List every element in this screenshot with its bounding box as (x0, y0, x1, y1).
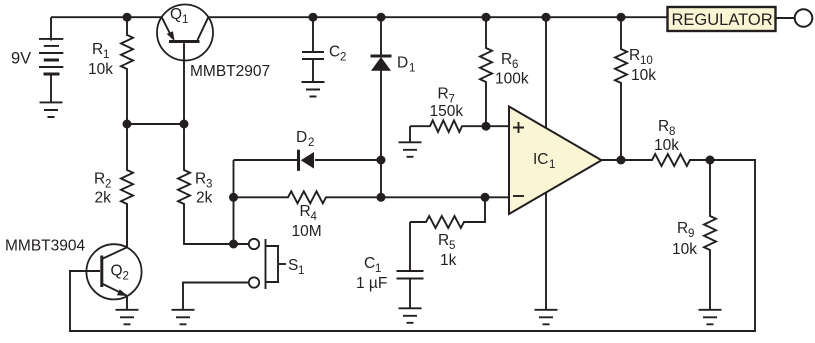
node: R1-R2 junction (123, 120, 132, 129)
svg-text:R: R (94, 171, 105, 188)
svg-text:150k: 150k (430, 103, 464, 120)
ground (IC1) (535, 310, 558, 325)
wire: Q2 emitter to ground (126, 296, 128, 311)
resistor R7 150k (410, 86, 509, 133)
resistor R5 1k (410, 197, 485, 269)
node: D1 anode / R4 line junction (377, 193, 386, 202)
svg-text:2: 2 (340, 52, 346, 64)
transistor Q1 MMBT2907 (PNP) (157, 5, 270, 81)
wire: base node row (R1/R2 junction to Q1 base/R3) (127, 123, 184, 125)
resistor R2 2k (94, 124, 133, 246)
wire: feedback loop Q2 base, left edge, bottom, right edge (70, 160, 755, 331)
wire: regulator to output terminal (776, 17, 795, 19)
svg-text:R: R (629, 47, 640, 64)
diode D1 (371, 17, 416, 197)
transistor Q2 MMBT3904 (NPN) (5, 238, 142, 300)
node: R4 left junction (229, 193, 238, 202)
svg-text:5: 5 (449, 240, 455, 252)
capacitor C2 (302, 17, 346, 81)
node: S1 top junction (229, 240, 238, 249)
op-amp IC1 (509, 107, 602, 215)
svg-text:Q: Q (170, 6, 182, 23)
resistor R10 10k (615, 17, 656, 160)
svg-text:9V: 9V (11, 50, 31, 68)
svg-text:1 µF: 1 µF (356, 275, 387, 292)
resistor R1 10k (88, 17, 133, 124)
svg-text:R: R (438, 86, 449, 103)
svg-text:2k: 2k (196, 190, 213, 207)
svg-text:10k: 10k (654, 137, 679, 154)
svg-text:C: C (364, 255, 375, 272)
wire: top rail right (Q1 collector to regulator) (209, 16, 668, 18)
svg-text:REGULATOR: REGULATOR (672, 11, 773, 29)
wire: IC1 output (602, 159, 622, 161)
diode D2 (234, 129, 382, 171)
wire: node line (D2/R4/S1 vertical) (233, 160, 235, 244)
svg-text:1: 1 (298, 265, 304, 277)
svg-text:100k: 100k (495, 71, 529, 88)
node: R6/R7/non-inverting input junction (482, 122, 491, 131)
node: R8/R9/feedback junction (706, 156, 715, 165)
ground (C1) (399, 308, 422, 323)
svg-text:2k: 2k (95, 190, 112, 207)
node: rail junction C2 (309, 13, 318, 22)
wire: V- of IC1 to ground (545, 192, 547, 309)
wire: R2 to Q2 collector (126, 204, 128, 248)
node: rail junction V+ (542, 13, 551, 22)
svg-text:6: 6 (512, 59, 518, 71)
battery B1 9V (11, 17, 63, 102)
ground (battery) (40, 102, 63, 117)
resistor R4 10M (234, 191, 510, 240)
svg-text:10k: 10k (88, 61, 113, 78)
svg-text:1: 1 (182, 14, 188, 26)
ground (C2) (302, 82, 325, 97)
svg-text:Q: Q (111, 263, 123, 280)
svg-text:R: R (658, 118, 669, 135)
svg-text:10M: 10M (292, 223, 322, 240)
svg-text:C: C (329, 44, 340, 61)
svg-text:S: S (288, 257, 298, 274)
output terminal (795, 9, 813, 27)
switch S1 (pushbutton) (249, 239, 305, 289)
svg-text:2: 2 (123, 271, 129, 283)
ground (S1) (172, 310, 195, 325)
svg-text:MMBT2907: MMBT2907 (190, 63, 270, 80)
svg-text:IC: IC (533, 151, 549, 168)
ground (R9) (699, 310, 722, 325)
svg-text:R: R (300, 203, 311, 220)
svg-text:D: D (397, 55, 408, 72)
svg-text:1: 1 (375, 263, 381, 275)
node: output / R10 / R8 junction (617, 156, 626, 165)
svg-text:10k: 10k (672, 241, 697, 258)
node: rail junction R10 (617, 13, 626, 22)
wire: V+ supply to IC1 (545, 17, 547, 128)
node: rail junction R1 (123, 13, 132, 22)
node: rail junction R6 (482, 13, 491, 22)
capacitor C1 1uF (356, 222, 424, 308)
ground (Q2 emitter) (116, 310, 139, 325)
resistor R8 10k (621, 118, 710, 166)
svg-text:1: 1 (409, 63, 415, 75)
svg-text:2: 2 (308, 137, 314, 149)
svg-text:9: 9 (688, 228, 694, 240)
svg-text:1k: 1k (440, 252, 457, 269)
regulator block (668, 7, 776, 31)
resistor R9 10k (672, 160, 716, 310)
svg-text:R: R (501, 51, 512, 68)
svg-text:1: 1 (103, 49, 109, 61)
resistor R3 2k (178, 124, 249, 244)
wire: S1 bottom contact to ground (183, 283, 249, 310)
svg-text:10k: 10k (631, 67, 656, 84)
node: R5 / inverting input junction (481, 193, 490, 202)
svg-text:4: 4 (311, 211, 318, 223)
svg-text:10: 10 (640, 55, 653, 67)
resistor R6 100k (480, 17, 529, 126)
ground (R7) (399, 142, 422, 157)
svg-text:R: R (438, 232, 449, 249)
svg-text:R: R (677, 220, 688, 237)
wire: Q1 base lead (183, 43, 185, 124)
svg-text:MMBT3904: MMBT3904 (5, 238, 85, 255)
node: Q1 base / R3 junction (180, 120, 189, 129)
wire: top rail left (battery to Q1 emitter) (51, 16, 162, 18)
svg-text:D: D (296, 129, 307, 146)
node: rail junction D1 (377, 13, 386, 22)
svg-text:R: R (195, 171, 206, 188)
svg-text:1: 1 (549, 159, 555, 171)
wire: R7 to ground (409, 126, 411, 142)
svg-text:R: R (92, 41, 103, 58)
node: D2/D1 line junction (377, 156, 386, 165)
